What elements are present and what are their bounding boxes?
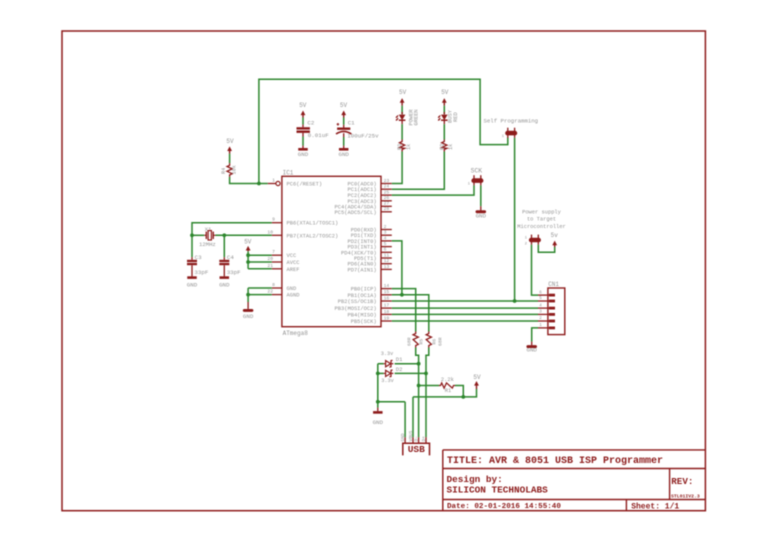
resistor R4 10k [227,163,232,177]
svg-text:20: 20 [267,256,273,262]
svg-text:Power supply: Power supply [522,209,562,215]
op IC1 ATmega8 body [282,176,381,326]
svg-text:ATmega8: ATmega8 [283,330,309,337]
USB pin D- [418,437,420,443]
wire D1 D2 anodes to GND rail [377,364,379,408]
wire R4 to pin1 RESET net [230,177,268,184]
junction AVCC [246,260,250,264]
wire 5V to LED2 [443,106,445,115]
wire C2 to GND [302,137,304,146]
junction usb gnd [376,400,380,404]
svg-text:C3: C3 [195,254,202,261]
svg-text:25: 25 [384,190,390,196]
svg-text:28: 28 [384,206,390,212]
svg-text:PB7(XTAL2/TOSC2): PB7(XTAL2/TOSC2) [287,233,339,239]
svg-text:to Target: to Target [527,217,556,223]
ground GND under C2 [298,148,308,151]
IC1 pin 5 PD3(INT1) [381,246,392,248]
svg-text:2: 2 [384,224,387,230]
svg-text:17: 17 [384,303,390,309]
svg-text:GND: GND [338,151,349,158]
capacitor C3 33pF [191,257,193,260]
svg-text:PC6(/RESET): PC6(/RESET) [287,182,323,188]
drawing frame [62,31,705,511]
svg-text:PB2(SS/OC1B): PB2(SS/OC1B) [338,299,377,305]
svg-text:GND: GND [187,281,198,288]
IC1 pin 13 PD7(AIN1) [381,268,392,270]
svg-text:AGND: AGND [287,293,300,299]
wire R3 to pin 23 [392,152,402,184]
wire R6 to USB D+ line [426,348,429,438]
wire pin4 PD2 down to PB1 net [392,241,402,295]
svg-text:TITLE: AVR & 8051 USB ISP Prog: TITLE: AVR & 8051 USB ISP Programmer [447,456,663,467]
CN1 pin 1 [538,327,549,329]
LED LED1 POWER GREEN [401,112,403,114]
IC1 pin 10 PB7(XTAL2/TOSC2) [272,234,282,236]
svg-text:GND: GND [243,313,254,320]
junction D1 to D- line [417,362,421,366]
svg-text:8: 8 [272,282,275,288]
wire Self-Programming right pin down to pin16 net [514,138,516,301]
svg-text:23: 23 [384,178,390,184]
IC1 pin 22 AGND [272,294,282,296]
wire VCC net [247,251,249,268]
junction D2 to D+ line [424,372,428,376]
wire R2 to pin 24 [392,152,445,190]
IC1 pin 11 PD5(T1) [381,257,392,259]
svg-text:12: 12 [384,258,390,264]
junction R1/VBUS 5V [461,395,465,399]
svg-text:GND: GND [476,213,487,220]
CN1 pin 5 [538,300,549,302]
svg-text:PB3(MOSI/OC2): PB3(MOSI/OC2) [335,306,377,312]
svg-text:3.3v: 3.3v [381,378,393,384]
wire pin14 PB0 to R5 [392,289,416,332]
IC1 pin 3 PD1(TXD) [381,234,392,236]
IC1 pin 6 PD4(XCK/T0) [381,251,392,253]
svg-text:13: 13 [384,264,390,270]
svg-text:22: 22 [267,289,273,295]
CN1 pin 6 [538,294,549,296]
ground GND under C3 [187,276,197,279]
svg-text:10k: 10k [231,165,237,174]
wire 5V to C2 [302,118,304,125]
svg-text:1k: 1k [448,144,454,150]
svg-text:12MHz: 12MHz [199,241,216,248]
junction pin16 net [513,299,517,303]
wire SCK jumper right pin to GND [480,185,482,206]
svg-text:R1: R1 [445,388,451,394]
ground GND under IC [243,309,254,312]
LED LED2 BUSY RED [443,112,445,114]
svg-text:D-: D- [413,436,419,441]
junction crystal right / C4 [222,233,226,237]
svg-text:AREF: AREF [287,267,300,273]
svg-text:GND: GND [287,286,297,292]
power 5V arrow at USB VBUS [476,383,478,389]
power 5v arrow near CN1 [554,243,556,247]
junction VCC [246,253,250,257]
svg-text:R3: R3 [397,144,403,150]
svg-text:AVCC: AVCC [287,260,300,266]
svg-text:GND: GND [219,281,230,288]
IC1 pin 2 PD0(RXD) [381,229,392,231]
svg-text:14: 14 [384,283,390,289]
IC1 pin 26 PC3(ADC3) [381,200,392,202]
svg-text:4: 4 [384,235,387,241]
wire GND/AGND net [248,287,272,289]
svg-text:Sheet: 1/1: Sheet: 1/1 [631,502,679,511]
IC1 pin 1 PC6(/RESET) [268,183,276,185]
wire power jumper left pin to CN1 pin6 [532,245,539,295]
wire to C3 [191,235,193,257]
svg-text:SILICON TECHNOLABS: SILICON TECHNOLABS [447,485,549,496]
resistor R5 68R [413,332,418,348]
IC1 pin 23 PC0(ADC0) [381,183,392,185]
svg-text:9: 9 [272,217,275,223]
svg-text:Design by:: Design by: [447,474,503,485]
svg-text:Microcontroller: Microcontroller [517,224,566,230]
svg-text:33pF: 33pF [194,269,208,276]
wire crystal row [192,234,204,236]
IC1 pin 12 PD6(AIN0) [381,263,392,265]
junction D1/D2 gnd rail [376,372,380,376]
IC1 pin 8 GND [272,287,282,289]
IC1 pin 25 PC2(ADC2) [381,194,392,196]
IC1 pin 15 PB1(OC1A) [381,294,392,296]
power 5V arrow at VCC [247,248,249,251]
svg-text:68R: 68R [437,337,443,346]
capacitor C1 100uF/25v polarized [343,125,345,128]
svg-text:1: 1 [272,178,275,184]
resistor R3 1k [400,140,405,152]
svg-text:C1: C1 [348,120,355,127]
svg-text:0.01uF: 0.01uF [308,132,329,139]
svg-text:D1: D1 [396,356,403,363]
wire LED2 to R2 [443,124,445,139]
svg-text:D+: D+ [421,436,427,442]
svg-text:Date: 02-01-2016 14:55:40: Date: 02-01-2016 14:55:40 [447,503,561,511]
svg-text:68R: 68R [406,337,412,346]
IC1 pin 14 PB0(ICP) [381,288,392,290]
power 5V arrow at C2 [302,113,304,118]
wire 5V to C1 [343,118,345,125]
svg-text:5: 5 [384,241,387,247]
IC1 pin 21 AREF [272,268,282,270]
svg-text:5V: 5V [399,89,407,96]
IC1 pin 17 PB3(MOSI/OC2) [381,307,392,309]
CN1 pin 4 [538,307,549,309]
capacitor C2 0.01uF [302,125,304,128]
USB pin GND [404,437,406,443]
svg-text:PB6(XTAL1/TOSC1): PB6(XTAL1/TOSC1) [287,221,339,227]
svg-text:R6: R6 [431,339,437,345]
junction R1 to D- line [417,384,421,388]
wire SCK jumper to pin 25 [392,185,474,195]
USB pin D+ [425,437,427,443]
IC1 pin 19 PB5(SCK) [381,320,392,322]
svg-text:PB0(ICP): PB0(ICP) [351,287,377,293]
wire USB VBUS pin up [412,397,414,437]
svg-text:R5: R5 [418,339,424,345]
ground GND under CN1 [526,345,537,348]
IC1 pin 7 VCC [272,254,282,256]
svg-text:GREEN: GREEN [414,109,420,125]
svg-text:16: 16 [384,295,390,301]
capacitor C4 33pF [223,257,225,260]
USB pin VBUS [412,437,414,443]
ground GND under C1 [339,148,349,151]
svg-text:R2: R2 [439,144,445,150]
IC1 pin 27 PC4(ADC4/SDA) [381,205,392,207]
svg-text:C2: C2 [307,120,314,127]
svg-text:PD7(AIN1): PD7(AIN1) [347,267,376,273]
wire pin19 PB5 to CN1 pin2 [392,320,538,322]
wire pin9 PB6 to crystal net [192,223,272,236]
svg-text:3: 3 [384,230,387,236]
svg-text:24: 24 [384,184,390,190]
wire USB GND to ground [378,401,405,403]
svg-text:27: 27 [384,201,390,207]
wire power jumper right pin to 5v [538,245,554,253]
svg-text:3.3v: 3.3v [381,351,393,357]
wire pin18 PB4 to CN1 pin3 [392,313,538,315]
ground GND near USB [373,411,383,414]
IC1 pin 4 PD2(INT0) [381,240,392,242]
svg-text:5V: 5V [226,138,234,145]
connector USB [403,443,430,455]
svg-text:D2: D2 [396,366,403,373]
wire VBUS to 5V arrow [413,389,477,397]
junction AGND [246,293,250,297]
svg-text:SCK: SCK [471,168,483,175]
svg-text:1k: 1k [406,144,412,150]
ground GND under SCK jumper [476,210,487,213]
svg-text:PB1(OC1A): PB1(OC1A) [347,293,376,299]
svg-text:33pF: 33pF [227,269,241,276]
svg-text:100uF/25v: 100uF/25v [347,132,379,139]
jumper power-supply to target [529,238,541,243]
svg-text:CN1: CN1 [548,281,559,288]
svg-text:7: 7 [272,249,275,255]
wire R1 to 5V rail [455,386,463,397]
svg-text:STL01IV2.3: STL01IV2.3 [671,494,700,500]
wire to C4 [223,235,225,257]
svg-text:26: 26 [384,195,390,201]
resistor R2 1k [442,140,447,152]
IC1 pin 16 PB2(SS/OC1B) [381,300,392,302]
power 5V arrow at C1 [343,113,345,118]
svg-text:GND: GND [373,419,384,426]
wire CN1 pin1 to GND [532,328,538,342]
jumper SCK [471,178,483,183]
svg-text:10: 10 [267,229,273,235]
CN1 pin 2 [538,320,549,322]
wire R5 to USB D- line [416,348,419,438]
svg-text:Self Programming: Self Programming [483,117,538,124]
power 5V arrow at LED2 [443,100,445,106]
junction reset-net [257,182,261,186]
svg-text:REV:: REV: [671,476,693,487]
svg-text:RED: RED [453,112,459,122]
svg-text:6: 6 [384,247,387,253]
svg-text:15: 15 [384,289,390,295]
svg-text:11: 11 [384,252,390,258]
svg-text:5V: 5V [299,102,307,109]
CN1 pin 3 [538,313,549,315]
power 5V arrow at R4 [229,148,231,153]
svg-text:USB: USB [408,444,425,455]
wire pin17 PB3 to CN1 pin4 [392,307,538,309]
wire LED1 to R3 [401,124,403,139]
svg-text:18: 18 [384,309,390,315]
power 5V arrow at LED1 [401,100,403,106]
svg-text:5V: 5V [340,102,348,109]
junction crystal left [190,233,194,237]
svg-text:5V: 5V [473,374,481,381]
wire 5V to R4 [229,154,231,164]
svg-text:C4: C4 [227,254,234,261]
wire USB GND pin up [404,402,406,437]
resistor R6 68R [426,332,431,348]
svg-text:PB4(MISO): PB4(MISO) [347,312,376,318]
IC1 pin 9 PB6(XTAL1/TOSC1) [272,222,282,224]
ground GND under C4 [220,276,230,279]
svg-text:19: 19 [384,315,390,321]
IC1 pin 24 PC1(ADC1) [381,188,392,190]
svg-text:PC5(ADC5/SCL): PC5(ADC5/SCL) [335,210,377,216]
svg-text:PB5(SCK): PB5(SCK) [351,319,377,325]
jumper Self-Programming [505,131,517,136]
IC1 pin 20 AVCC [272,261,282,263]
wire pin16 PB2 to CN1 pin5 [392,300,538,302]
wire pin15 PB1 to R6 [392,295,429,332]
svg-text:2.2k: 2.2k [441,377,454,383]
svg-text:5v: 5v [551,232,559,239]
svg-text:21: 21 [267,263,273,269]
svg-text:GND: GND [298,151,309,158]
svg-text:R4: R4 [221,168,227,174]
svg-text:VCC: VCC [287,253,297,259]
IC1 pin 18 PB4(MISO) [381,313,392,315]
svg-text:GND: GND [526,347,537,354]
svg-text:IC1: IC1 [283,169,294,176]
title block [443,449,706,451]
wire reset net to Self-Programming jumper [259,79,508,183]
wire C1 to GND [343,137,345,146]
svg-text:5V: 5V [244,238,252,245]
wire 5V to LED1 [401,106,403,115]
svg-text:5V: 5V [441,89,449,96]
IC1 pin 28 PC5(ADC5/SCL) [381,211,392,213]
junction PD2/PB1 [400,293,404,297]
